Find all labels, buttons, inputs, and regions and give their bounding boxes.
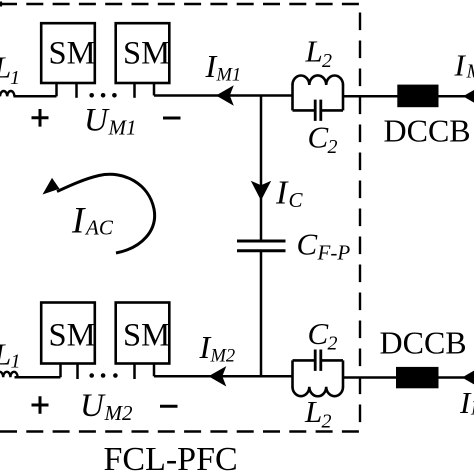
svg-text:I: I [275, 175, 289, 212]
capacitor C2 bottom plates [315, 350, 321, 371]
inductor L2 top coil [293, 75, 344, 85]
tank bottom top edge right [322, 359, 343, 362]
svg-text:M2: M2 [104, 401, 133, 425]
SM1 bottom right pin [76, 364, 79, 380]
tank top left post [291, 85, 294, 111]
minus sign of U_M2 [160, 405, 178, 408]
wire tank to DCCB top [343, 95, 398, 98]
svg-text:FCL-PFC: FCL-PFC [104, 441, 238, 474]
svg-text:I: I [454, 48, 467, 83]
wire DCCB bottom to line arrow [438, 376, 464, 379]
svg-text:2: 2 [328, 333, 338, 355]
svg-text:DCCB: DCCB [384, 113, 471, 149]
SM2 top right pin [153, 83, 156, 96]
I_AC circulation arc [57, 174, 155, 253]
svg-text:C: C [308, 316, 329, 351]
svg-text:I: I [71, 201, 86, 242]
wire SM2 to tank bottom [154, 375, 293, 378]
DCCB breaker body bottom [396, 367, 439, 388]
dashed border top edge [0, 3, 359, 5]
svg-text:C: C [289, 188, 304, 212]
SM submodule box 1 top [41, 23, 95, 83]
svg-text:AC: AC [84, 216, 114, 240]
minus sign of U_M1 [163, 117, 181, 120]
dashed border right edge [359, 13, 361, 426]
wire L1 to SM1 [14, 95, 57, 98]
svg-text:DCCB: DCCB [380, 325, 467, 361]
capacitor C2 top plates [315, 100, 321, 121]
arrowhead line current bottom right [462, 368, 474, 388]
tank bottom top edge left [293, 359, 315, 362]
svg-text:1: 1 [10, 67, 20, 89]
svg-text:SM: SM [123, 36, 170, 72]
svg-text:2: 2 [328, 136, 338, 158]
dashed border bottom edge [0, 430, 359, 432]
SM1 top left pin [55, 83, 58, 96]
wire DCCB top to line arrow [438, 95, 465, 98]
svg-text:2: 2 [322, 50, 332, 72]
inductor L1 bottom [0, 372, 18, 377]
arrowhead line current top right [463, 87, 474, 107]
svg-text:SM: SM [123, 318, 170, 354]
plus sign of U_M1 [32, 109, 49, 127]
svg-text:1: 1 [11, 351, 21, 373]
svg-text:SM: SM [49, 318, 96, 354]
tank bottom right post [342, 360, 345, 387]
svg-text:2: 2 [322, 411, 332, 433]
svg-text:M2: M2 [210, 347, 236, 367]
tank bottom left post [291, 360, 294, 387]
inductor L2 bottom coil [293, 387, 344, 397]
vertical branch wire lower [260, 252, 263, 376]
SM1 bottom left pin [59, 364, 62, 378]
svg-text:L: L [305, 34, 323, 69]
wire L1 to SM1 bottom [15, 376, 61, 379]
SM submodule box 1 bottom [41, 303, 95, 364]
SM2 bottom left pin [133, 364, 136, 380]
svg-text:C: C [297, 227, 318, 262]
dashed border left edge stub [0, 2, 2, 7]
SM submodule box 2 top [116, 23, 170, 83]
SM2 top left pin [133, 83, 136, 98]
DCCB breaker body top [397, 85, 438, 108]
plus sign of U_M2 [32, 396, 49, 414]
tank top bottom edge right [322, 109, 343, 112]
svg-text:M1: M1 [108, 116, 137, 140]
arrowhead I_C [251, 181, 271, 201]
SM2 bottom right pin [153, 364, 156, 377]
dots between SM modules top [89, 93, 94, 98]
wire tank to DCCB bottom [343, 376, 397, 379]
SM submodule box 2 bottom [116, 303, 170, 364]
svg-text:C: C [308, 120, 329, 155]
capacitor C_F-P plates [237, 241, 286, 251]
svg-text:M: M [470, 398, 474, 420]
tank top bottom edge left [293, 109, 315, 112]
tank top right post [342, 85, 345, 111]
svg-text:U: U [80, 388, 106, 424]
svg-text:M: M [466, 61, 474, 83]
svg-text:SM: SM [49, 36, 96, 72]
arrowhead I_AC [43, 178, 60, 195]
dots between SM modules bottom [89, 373, 94, 378]
arrowhead I_M2 [209, 366, 227, 386]
vertical branch wire upper [260, 96, 263, 240]
inductor L1 top [0, 91, 14, 96]
svg-text:M1: M1 [216, 66, 242, 86]
SM1 top right pin [75, 83, 78, 98]
svg-text:F-P: F-P [317, 241, 351, 265]
svg-text:L: L [304, 394, 322, 429]
svg-text:U: U [84, 102, 110, 138]
wire SM2 to tank top [154, 94, 293, 97]
arrowhead I_M1 [216, 85, 234, 105]
